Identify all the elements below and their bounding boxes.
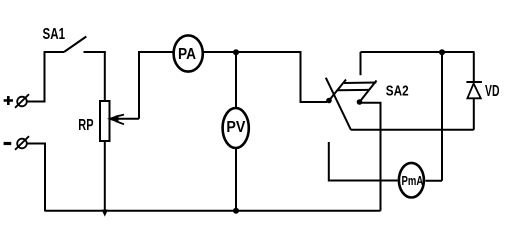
bottom rail (45, 210, 381, 212)
junction dot PV bottom (233, 208, 239, 214)
wire PmA right lead (425, 180, 442, 182)
wire - terminal to bottom rail (27, 144, 45, 212)
milliammeter PmA (399, 163, 424, 198)
svg-text:PmA: PmA (402, 173, 424, 188)
wire VD bottom to SA2 blade (351, 129, 474, 131)
wire node B down to PmA right (441, 52, 443, 181)
voltmeter PV (223, 108, 249, 148)
wire SA2 actuator stub (360, 52, 362, 75)
resistor RP (100, 101, 110, 141)
svg-text:VD: VD (485, 83, 500, 100)
wire bottom rail up to SA2 right contact (361, 103, 381, 211)
ammeter PA (174, 35, 203, 71)
wire node A down to PV (235, 52, 237, 107)
diode VD (466, 52, 482, 130)
wire RP bottom lead (104, 141, 106, 211)
svg-text:PA: PA (178, 46, 196, 63)
node B junction dot (439, 49, 445, 55)
wire top right rail (361, 51, 475, 53)
wire PA to node A (203, 51, 236, 53)
switch SA1 (44, 37, 106, 53)
junction dot RP bottom (102, 210, 108, 217)
wire node A to SA2 left contact (236, 52, 327, 102)
svg-text:SA1: SA1 (43, 26, 66, 43)
node A junction dot (233, 49, 239, 55)
svg-text:RP: RP (78, 117, 93, 134)
wire wiper to PA (139, 52, 173, 119)
wire SA2 open throw to PmA left (329, 142, 398, 181)
svg-text:PV: PV (226, 119, 246, 136)
terminal + (4, 94, 29, 108)
svg-text:SA2: SA2 (386, 83, 409, 99)
wire + terminal to SA1 left post (27, 52, 45, 102)
switch SA2 (326, 78, 377, 130)
terminal - (4, 136, 29, 150)
wire SA1 to RP top (104, 52, 106, 101)
wiper arrow of RP (109, 115, 140, 125)
wire PV to bottom rail (235, 149, 237, 211)
